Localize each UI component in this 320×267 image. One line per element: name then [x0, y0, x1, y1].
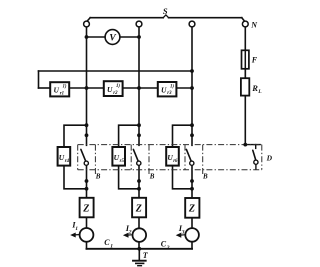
svg-text:r1: r1: [60, 91, 64, 96]
svg-text:U: U: [107, 85, 113, 94]
svg-text:2: 2: [128, 229, 132, 235]
svg-text:U: U: [161, 85, 167, 94]
svg-text:2: 2: [166, 245, 170, 251]
svg-text:U: U: [54, 86, 60, 95]
svg-text:1): 1): [63, 85, 67, 90]
svg-text:B: B: [149, 173, 155, 181]
svg-text:r4: r4: [65, 159, 70, 164]
svg-text:r5: r5: [120, 159, 125, 164]
svg-text:L: L: [257, 89, 262, 95]
svg-text:3: 3: [181, 229, 185, 235]
svg-text:B: B: [95, 173, 101, 181]
svg-text:Z: Z: [82, 203, 89, 214]
svg-text:r2: r2: [113, 91, 118, 96]
svg-text:Z: Z: [188, 204, 195, 215]
svg-text:S: S: [163, 6, 168, 16]
svg-text:1): 1): [170, 84, 174, 89]
svg-text:1): 1): [116, 84, 120, 89]
svg-text:B: B: [202, 173, 208, 181]
svg-text:1: 1: [110, 243, 113, 249]
svg-text:Z: Z: [135, 203, 142, 214]
svg-text:R: R: [251, 83, 258, 93]
svg-text:r3: r3: [167, 91, 172, 96]
svg-text:1: 1: [75, 226, 78, 232]
svg-text:F: F: [251, 56, 258, 65]
svg-text:r6: r6: [173, 159, 178, 164]
svg-text:D: D: [266, 153, 273, 162]
svg-text:V: V: [109, 34, 116, 44]
